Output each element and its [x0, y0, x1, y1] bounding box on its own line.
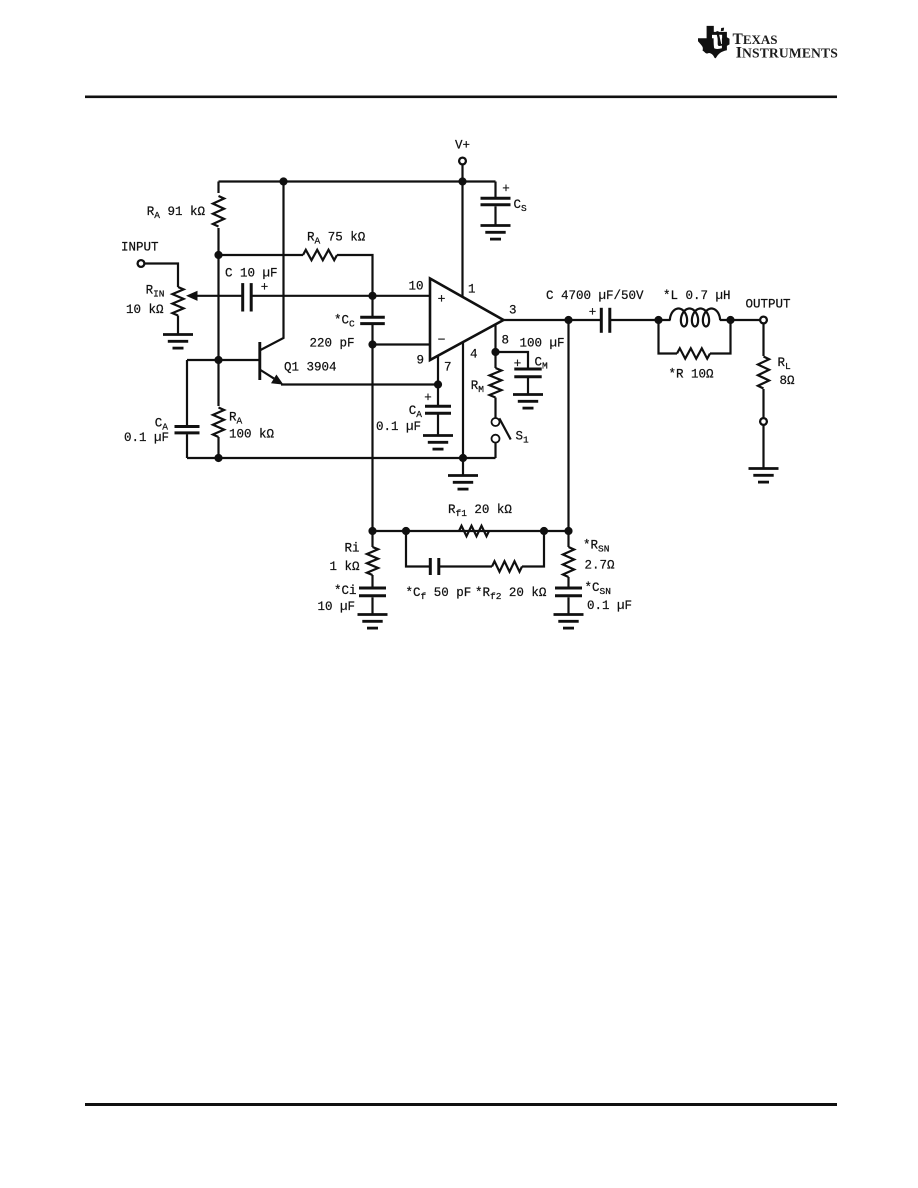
- transistor Q1 label: [284, 361, 337, 375]
- potentiometer RIN 10k: [172, 287, 183, 316]
- svg-text:RL​: RL​: [778, 356, 792, 372]
- switch S1 bottom contact: [492, 435, 500, 443]
- node inductor left junction: [654, 316, 662, 324]
- inductor L 0.7uH: [670, 309, 720, 327]
- ground main: [448, 476, 478, 490]
- capacitor C 10uF label: [225, 267, 278, 281]
- wire C to inductor node: [610, 319, 671, 321]
- resistor RL value: [780, 374, 796, 388]
- potentiometer RIN value: [126, 303, 164, 317]
- svg-text:RA​: RA​: [229, 411, 243, 427]
- capacitor Ci label: [334, 584, 357, 598]
- wire RA1 to base node: [217, 228, 219, 406]
- op-amp plus sign: [438, 292, 446, 307]
- svg-text:Ri: Ri: [344, 542, 359, 556]
- op-amp minus sign: [438, 333, 446, 348]
- node pin8 junction: [491, 348, 499, 356]
- wire output to RL: [762, 324, 764, 357]
- svg-text:*Cf​ 50 pF: *Cf​ 50 pF: [406, 586, 472, 602]
- potentiometer RIN label: [146, 284, 165, 300]
- wire output feedback drop: [567, 320, 569, 531]
- wire RL to terminal: [762, 389, 764, 418]
- capacitor C 10uF: [243, 283, 252, 311]
- wire pin 8 drop: [494, 325, 496, 369]
- switch S1 label: [516, 430, 530, 446]
- wire Cf to Rf2: [439, 565, 492, 567]
- svg-text:RA​ 91 kΩ: RA​ 91 kΩ: [147, 205, 206, 221]
- node RA2 rail junction: [214, 454, 222, 462]
- svg-text:Q1 3904: Q1 3904: [284, 361, 337, 375]
- wire V+ stem down to op-amp pin 1: [461, 165, 463, 297]
- pin 3 label: [509, 304, 517, 318]
- TEXAS wordmark: [733, 31, 778, 48]
- node Cf branch left junction: [402, 527, 410, 535]
- wire R parallel right: [710, 320, 731, 354]
- resistor RSN label: [583, 539, 609, 555]
- svg-text:220 pF: 220 pF: [309, 337, 354, 351]
- capacitor CSN value: [587, 599, 632, 613]
- capacitor C 4700uF plus: [589, 306, 597, 320]
- resistor Rf2 label: [475, 586, 547, 602]
- node pin4 ground junction: [459, 454, 467, 462]
- wire Cf branch left: [406, 531, 430, 567]
- svg-text:S1​: S1​: [516, 430, 530, 446]
- Texas Instruments logo: [698, 26, 730, 58]
- capacitor Ci 10uF: [359, 588, 386, 596]
- svg-text:OUTPUT: OUTPUT: [746, 298, 792, 312]
- capacitor CA2 plus: [424, 391, 432, 405]
- wire bottom rail: [187, 457, 496, 459]
- svg-text:INSTRUMENTS: INSTRUMENTS: [736, 45, 838, 62]
- INPUT terminal: [138, 260, 145, 267]
- switch S1 top contact: [492, 418, 500, 426]
- wire CM to ground: [527, 378, 529, 394]
- pin 9 label: [416, 354, 424, 368]
- wire terminal to ground: [762, 425, 764, 468]
- resistor Rf2 20k: [492, 561, 522, 571]
- node pin7 emitter junction: [434, 380, 442, 388]
- svg-text:+: +: [502, 182, 510, 196]
- transistor Q1 emitter: [261, 370, 284, 385]
- resistor R 10: [677, 348, 710, 358]
- capacitor CM label: [535, 356, 549, 372]
- svg-text:100 µF: 100 µF: [520, 337, 565, 351]
- svg-text:1 kΩ: 1 kΩ: [329, 560, 360, 574]
- wire Ci to ground: [371, 597, 373, 614]
- wire C_S to ground: [494, 206, 496, 225]
- capacitor CA2 0.1uF: [425, 406, 451, 413]
- wire pin 4 drop: [462, 342, 464, 458]
- capacitor CA2 label: [409, 404, 423, 420]
- svg-text:3: 3: [509, 304, 517, 318]
- svg-text:C 4700 µF/50V: C 4700 µF/50V: [546, 289, 644, 303]
- svg-text:4: 4: [470, 348, 478, 362]
- capacitor CM 100uF: [514, 369, 541, 377]
- svg-text:*CSN​: *CSN​: [585, 581, 611, 597]
- wire base rail: [187, 359, 259, 361]
- resistor RM label: [471, 379, 485, 395]
- resistor Ri label: [344, 542, 359, 556]
- resistor RA2 100k value: [229, 428, 275, 442]
- svg-text:2.7Ω: 2.7Ω: [585, 559, 616, 573]
- capacitor CS plus: [502, 182, 510, 196]
- svg-text:INPUT: INPUT: [121, 241, 159, 255]
- node RSN top junction: [564, 527, 572, 535]
- transistor Q1 collector: [261, 182, 284, 351]
- svg-text:V+: V+: [455, 139, 470, 153]
- capacitor C 4700uF: [601, 308, 610, 333]
- switch S1 lever: [499, 418, 510, 439]
- pin 4 label: [470, 348, 478, 362]
- resistor Rf1 label: [448, 503, 512, 519]
- capacitor CA2 value: [376, 420, 421, 434]
- resistor RL 8ohm: [758, 357, 769, 389]
- capacitor CA1 value: [124, 431, 169, 445]
- INSTRUMENTS wordmark: [736, 45, 838, 62]
- ground below RIN: [163, 335, 193, 349]
- resistor RA1 91k label: [147, 205, 206, 221]
- capacitor CS label: [514, 198, 528, 214]
- resistor Ri value: [329, 560, 360, 574]
- svg-text:0.1 µF: 0.1 µF: [587, 599, 632, 613]
- resistor RM: [490, 368, 502, 398]
- node collector to rail junction: [279, 177, 287, 185]
- V+ terminal: [459, 158, 466, 165]
- capacitor CC label: [334, 314, 355, 330]
- resistor RA1 91k: [213, 196, 224, 227]
- svg-text:−: −: [438, 333, 446, 348]
- svg-text:0.1 µF: 0.1 µF: [376, 420, 421, 434]
- resistor Ri 1k: [367, 547, 378, 575]
- wire ground stem: [462, 458, 464, 475]
- node Ri top junction: [368, 527, 376, 535]
- svg-text:Rf1​ 20 kΩ: Rf1​ 20 kΩ: [448, 503, 512, 519]
- wire divider to RA3: [219, 254, 304, 256]
- capacitor C 10uF plus: [261, 281, 269, 295]
- node plus input junction: [368, 292, 376, 300]
- load ground terminal: [760, 418, 767, 425]
- svg-text:RM​: RM​: [471, 379, 485, 395]
- wire RA2 to rail: [217, 437, 219, 458]
- svg-text:+: +: [424, 391, 432, 405]
- wire RIN to ground: [177, 316, 179, 335]
- wire pin8 to CM: [496, 352, 529, 368]
- wire op-amp output: [504, 319, 601, 321]
- pin 1 label: [468, 283, 476, 297]
- node base junction: [214, 356, 222, 364]
- resistor RA2 100k label: [229, 411, 243, 427]
- node output junction: [564, 316, 572, 324]
- OUTPUT label: [746, 298, 792, 312]
- wire feedback bottom rail: [373, 530, 569, 532]
- ground below CM: [513, 395, 543, 409]
- wire Ri lead: [371, 531, 373, 547]
- wire switch to rail: [494, 443, 496, 458]
- wire CA2 to ground: [437, 415, 439, 436]
- wire input to pot: [145, 264, 179, 288]
- wire plus node to CC: [371, 296, 373, 316]
- svg-text:*RSN​: *RSN​: [583, 539, 609, 555]
- svg-text:*CC​: *CC​: [334, 314, 355, 330]
- op-amp U1: [430, 279, 504, 361]
- wire minus node to op-amp: [373, 343, 431, 345]
- wire CSN to ground: [567, 597, 569, 614]
- resistor Rf1 20k: [459, 526, 489, 536]
- ground below CS: [481, 226, 511, 240]
- top horizontal rule: [85, 96, 837, 99]
- wire pin7 node to CA2: [437, 385, 439, 406]
- capacitor CS: [481, 198, 511, 205]
- svg-text:RA​ 75 kΩ: RA​ 75 kΩ: [307, 231, 366, 247]
- capacitor Ci value: [317, 600, 355, 614]
- inductor L label: [663, 289, 731, 303]
- svg-text:CA​: CA​: [409, 404, 423, 420]
- ground below CSN: [554, 615, 584, 629]
- resistor RA2 100k: [213, 408, 224, 438]
- svg-text:*L 0.7 µH: *L 0.7 µH: [663, 289, 731, 303]
- resistor RSN 2.7ohm: [563, 547, 574, 577]
- pin 8 label: [502, 334, 510, 348]
- OUTPUT terminal: [760, 317, 767, 324]
- capacitor CA1 label: [155, 417, 169, 433]
- pin 7 label: [444, 361, 452, 375]
- capacitor Cf label: [406, 586, 472, 602]
- node RA1/RA2 divider junction: [214, 251, 222, 259]
- node Cf branch right junction: [540, 527, 548, 535]
- svg-text:10 kΩ: 10 kΩ: [126, 303, 164, 317]
- svg-text:+: +: [589, 306, 597, 320]
- ground below Ci: [358, 615, 388, 629]
- wire emitter to pin7 node: [281, 383, 438, 385]
- wire RSN to CSN: [567, 577, 569, 587]
- capacitor CC value: [309, 337, 354, 351]
- capacitor CM plus: [514, 357, 522, 371]
- capacitor CM value: [520, 337, 565, 351]
- INPUT label: [121, 241, 159, 255]
- node V+ rail junction: [458, 177, 466, 185]
- svg-text:10: 10: [408, 280, 423, 294]
- ground below CA2: [423, 436, 453, 450]
- capacitor C 4700uF label: [546, 289, 644, 303]
- wire inductor to output terminal: [720, 319, 760, 321]
- node minus input junction: [368, 340, 376, 348]
- svg-text:8: 8: [502, 334, 510, 348]
- svg-text:7: 7: [444, 361, 452, 375]
- node inductor right junction: [726, 316, 734, 324]
- wire C to plus input: [251, 295, 430, 297]
- svg-text:*Ci: *Ci: [334, 584, 357, 598]
- svg-text:10 µF: 10 µF: [317, 600, 355, 614]
- wire RM to switch: [494, 398, 496, 419]
- wire CA1 to rail: [186, 434, 188, 458]
- svg-text:*R 10Ω: *R 10Ω: [669, 368, 715, 382]
- wire feedback drop: [371, 345, 373, 532]
- svg-text:CS​: CS​: [514, 198, 528, 214]
- svg-text:*Rf2​ 20 kΩ: *Rf2​ 20 kΩ: [475, 586, 547, 602]
- wire Rf2 to rail: [522, 531, 544, 567]
- wire top supply rail: [219, 180, 496, 182]
- svg-text:+: +: [261, 281, 269, 295]
- wire R parallel left: [659, 320, 678, 354]
- wire Ri to Ci: [371, 575, 373, 587]
- svg-text:8Ω: 8Ω: [780, 374, 796, 388]
- capacitor CSN 0.1uF: [555, 588, 582, 596]
- svg-text:C 10 µF: C 10 µF: [225, 267, 278, 281]
- resistor RSN value: [585, 559, 616, 573]
- wire pin 7 drop: [437, 356, 439, 385]
- wire base to CA1: [186, 360, 188, 425]
- svg-text:9: 9: [416, 354, 424, 368]
- resistor RA3 75k label: [307, 231, 366, 247]
- svg-text:RIN​: RIN​: [146, 284, 165, 300]
- pin 10 label: [408, 280, 423, 294]
- svg-text:1: 1: [468, 283, 476, 297]
- wire rail to RA1: [217, 182, 219, 194]
- V+ supply label: [455, 139, 470, 153]
- resistor RA3 75k: [303, 250, 337, 260]
- capacitor CA1 0.1uF: [175, 427, 200, 433]
- wire CC to minus node: [371, 325, 373, 345]
- svg-text:0.1 µF: 0.1 µF: [124, 431, 169, 445]
- bottom horizontal rule: [85, 1103, 837, 1106]
- wire C_S drop: [494, 182, 496, 198]
- transistor Q1 base bar: [258, 342, 261, 380]
- ground below RL: [749, 469, 779, 483]
- capacitor Cf 50pF: [430, 558, 439, 575]
- svg-text:100 kΩ: 100 kΩ: [229, 428, 275, 442]
- capacitor CC 220pF: [360, 317, 385, 323]
- potentiometer wiper arrow: [186, 291, 243, 301]
- resistor R 10 label: [669, 368, 715, 382]
- svg-text:+: +: [438, 292, 446, 307]
- capacitor CSN label: [585, 581, 611, 597]
- wire RSN lead: [567, 531, 569, 547]
- resistor RL label: [778, 356, 792, 372]
- wire RA3 to plus node: [337, 255, 373, 296]
